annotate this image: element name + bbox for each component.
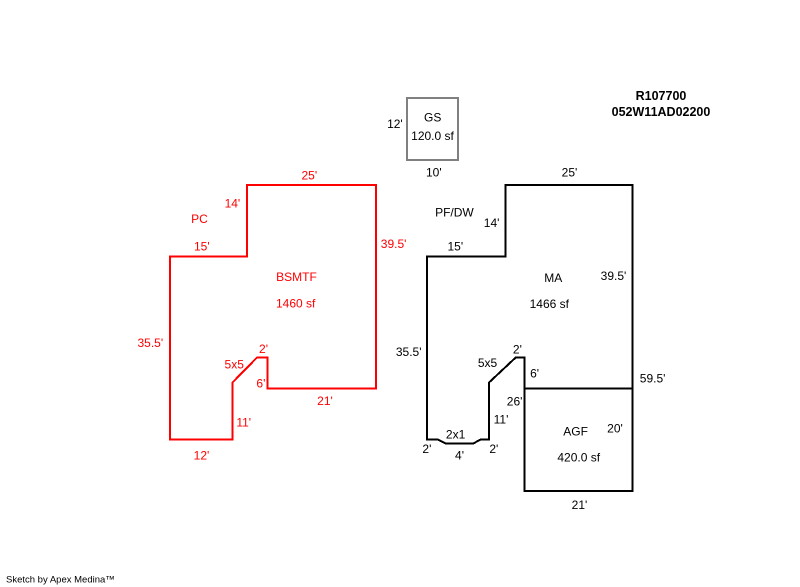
- svg-text:Sketch by Apex Medina™: Sketch by Apex Medina™: [6, 574, 115, 585]
- svg-text:2x1: 2x1: [446, 427, 466, 441]
- svg-text:420.0 sf: 420.0 sf: [557, 450, 600, 464]
- svg-text:21': 21': [572, 498, 588, 512]
- svg-text:2': 2': [489, 442, 498, 456]
- svg-text:11': 11': [494, 412, 509, 426]
- svg-text:35.5': 35.5': [137, 336, 163, 350]
- svg-text:10': 10': [426, 165, 442, 179]
- svg-text:11': 11': [236, 416, 251, 430]
- svg-text:14': 14': [484, 216, 500, 230]
- svg-text:12': 12': [194, 448, 210, 462]
- svg-text:39.5': 39.5': [601, 269, 627, 283]
- svg-text:5x5: 5x5: [225, 357, 245, 371]
- svg-text:120.0 sf: 120.0 sf: [411, 129, 454, 143]
- svg-text:PF/DW: PF/DW: [435, 206, 474, 220]
- svg-text:R107700: R107700: [636, 89, 687, 103]
- svg-text:15': 15': [194, 239, 210, 253]
- svg-text:BSMTF: BSMTF: [276, 270, 317, 284]
- svg-text:26': 26': [507, 395, 523, 409]
- svg-text:4': 4': [455, 449, 464, 463]
- svg-text:6': 6': [256, 376, 265, 390]
- svg-text:6': 6': [530, 366, 539, 380]
- svg-text:MA: MA: [544, 271, 562, 285]
- svg-text:2': 2': [513, 342, 522, 356]
- svg-text:AGF: AGF: [563, 424, 588, 438]
- svg-text:2': 2': [259, 342, 268, 356]
- svg-text:14': 14': [225, 197, 241, 211]
- svg-text:25': 25': [301, 169, 317, 183]
- svg-text:GS: GS: [424, 110, 441, 124]
- svg-text:5x5: 5x5: [478, 356, 498, 370]
- svg-text:12': 12': [387, 117, 403, 131]
- svg-text:25': 25': [562, 166, 578, 180]
- svg-text:15': 15': [447, 239, 463, 253]
- svg-text:20': 20': [607, 422, 623, 436]
- svg-text:052W11AD02200: 052W11AD02200: [612, 105, 711, 119]
- svg-text:1466 sf: 1466 sf: [530, 297, 570, 311]
- svg-text:PC: PC: [191, 212, 208, 226]
- svg-text:1460 sf: 1460 sf: [276, 296, 316, 310]
- svg-text:59.5': 59.5': [640, 372, 666, 386]
- svg-text:2': 2': [422, 442, 431, 456]
- svg-text:35.5': 35.5': [396, 345, 422, 359]
- svg-text:21': 21': [317, 394, 333, 408]
- svg-text:39.5': 39.5': [381, 237, 407, 251]
